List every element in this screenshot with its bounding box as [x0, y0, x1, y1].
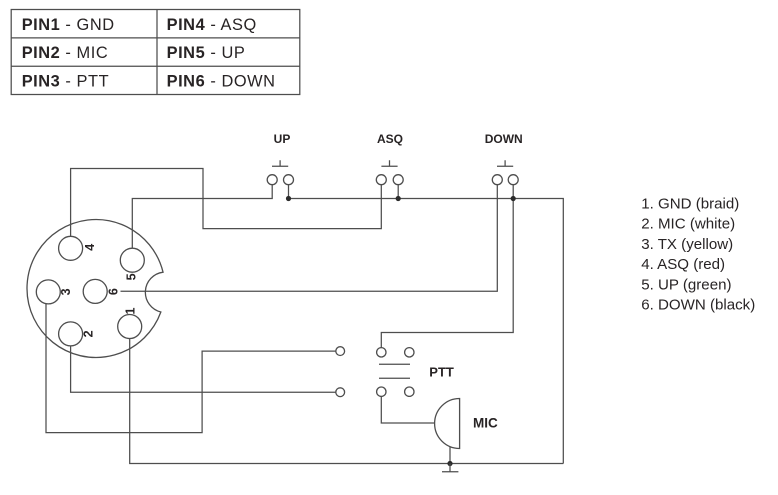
ground symbol: [442, 464, 458, 472]
junction dot at UP right contact: [286, 196, 291, 201]
svg-text:UP: UP: [274, 132, 291, 146]
wire microphone to ground bus: [449, 447, 451, 464]
switch PTT : lower-right contact: [405, 387, 414, 396]
pin table: [11, 10, 300, 95]
wire pin2 to PTT lower pole contact: [71, 346, 336, 392]
junction dot at microphone / ground: [447, 461, 452, 466]
svg-text:4. ASQ (red): 4. ASQ (red): [641, 256, 725, 273]
svg-text:PIN2 - MIC: PIN2 - MIC: [22, 44, 109, 62]
switch PTT : lower-left contact: [377, 387, 386, 396]
svg-text:1: 1: [123, 307, 137, 314]
svg-text:6. DOWN (black): 6. DOWN (black): [641, 297, 755, 314]
svg-text:PTT: PTT: [429, 365, 454, 380]
svg-text:5: 5: [124, 273, 138, 280]
pin 4: [59, 236, 83, 260]
pushbutton SW3 DOWN : right contact: [508, 175, 518, 185]
svg-text:3. TX (yellow): 3. TX (yellow): [641, 236, 733, 253]
svg-text:4: 4: [83, 244, 97, 251]
switch PTT : pole contact upper (to pin3): [336, 347, 345, 356]
pushbutton SW1 UP : right contact: [284, 175, 294, 185]
wire ground bus across button right contacts: [289, 185, 564, 464]
wire DOWN right contact to PTT upper-left contact: [381, 185, 513, 348]
pushbutton SW2 ASQ : right contact: [393, 175, 403, 185]
junction dot at ASQ right contact: [396, 196, 401, 201]
pushbutton SW3 DOWN : left contact: [492, 175, 502, 185]
wire PTT lower-left contact to microphone: [381, 396, 434, 423]
svg-text:2: 2: [82, 330, 96, 337]
svg-text:MIC: MIC: [473, 416, 498, 431]
svg-text:DOWN: DOWN: [485, 132, 523, 146]
pin 6: [83, 279, 107, 303]
legend list: [641, 195, 755, 313]
svg-text:2. MIC (white): 2. MIC (white): [641, 216, 735, 233]
svg-text:3: 3: [59, 288, 73, 295]
svg-text:PIN3 - PTT: PIN3 - PTT: [22, 72, 109, 90]
switch PTT : upper-right contact: [405, 348, 414, 357]
svg-text:6: 6: [107, 288, 121, 295]
pin 3: [36, 280, 60, 304]
junction dot at DOWN right contact: [511, 196, 516, 201]
microphone MIC : element (half-disc, flat side right): [435, 399, 460, 449]
connector body J1 (6-pin round DIN, keyway notch on right): [27, 219, 163, 357]
pin 1: [118, 315, 142, 339]
pushbutton SW1 UP : actuator: [272, 160, 288, 166]
switch PTT : actuator bars: [379, 364, 410, 378]
wire pin4 to ASQ left contact: [71, 169, 382, 237]
pin 5: [120, 248, 144, 272]
pushbutton SW1 UP : left contact: [267, 175, 277, 185]
pin 2: [59, 322, 83, 346]
svg-text:5. UP (green): 5. UP (green): [641, 276, 731, 293]
svg-text:PIN5 - UP: PIN5 - UP: [167, 44, 246, 62]
svg-text:ASQ: ASQ: [377, 132, 403, 146]
pushbutton SW2 ASQ : left contact: [376, 175, 386, 185]
wire pin5 to UP left contact: [132, 185, 272, 248]
wire pin1 to ground bus: [130, 339, 564, 464]
svg-text:PIN4 - ASQ: PIN4 - ASQ: [167, 16, 257, 34]
switch PTT : pole contact lower (to pin2): [336, 388, 345, 397]
pushbutton SW3 DOWN : actuator: [497, 160, 513, 166]
wire ASQ right contact to bus: [397, 185, 399, 199]
switch PTT : upper-left contact: [377, 348, 386, 357]
wire pin6 to DOWN left contact: [121, 185, 498, 291]
wire pin3 to PTT upper pole contact: [46, 304, 336, 433]
svg-text:1. GND (braid): 1. GND (braid): [641, 195, 739, 212]
pushbutton SW2 ASQ : actuator: [381, 160, 397, 166]
svg-text:PIN6 - DOWN: PIN6 - DOWN: [167, 72, 276, 90]
svg-text:PIN1 - GND: PIN1 - GND: [22, 16, 115, 34]
